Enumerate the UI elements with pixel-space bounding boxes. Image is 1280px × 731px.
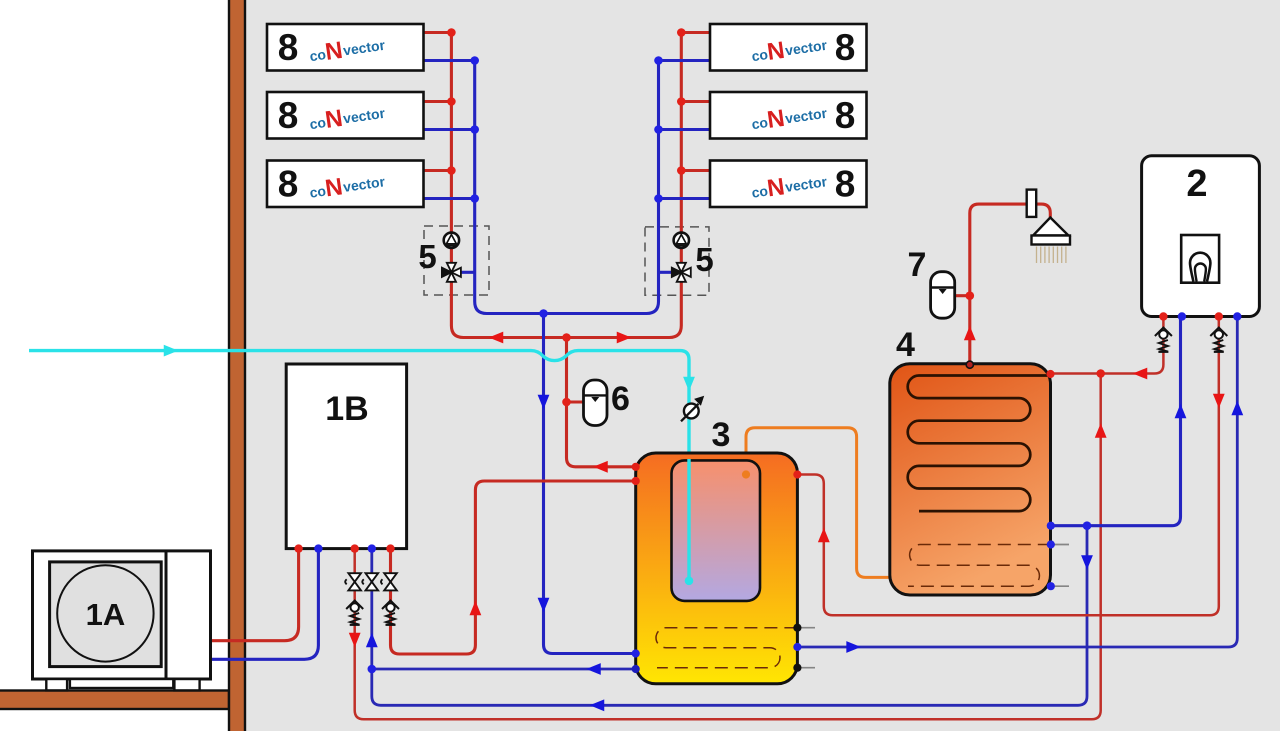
svg-text:8: 8 <box>278 27 299 68</box>
svg-text:8: 8 <box>278 95 299 136</box>
svg-text:8: 8 <box>835 95 856 136</box>
svg-text:4: 4 <box>896 326 915 364</box>
svg-text:3: 3 <box>712 416 731 454</box>
svg-text:5: 5 <box>695 241 713 278</box>
svg-text:5: 5 <box>418 238 436 275</box>
svg-text:6: 6 <box>611 380 630 418</box>
svg-text:2: 2 <box>1186 163 1207 205</box>
svg-text:1B: 1B <box>325 390 368 428</box>
svg-text:8: 8 <box>835 27 856 68</box>
svg-text:1A: 1A <box>86 597 126 632</box>
svg-text:8: 8 <box>278 164 299 205</box>
svg-text:7: 7 <box>908 246 927 284</box>
svg-text:8: 8 <box>835 164 856 205</box>
